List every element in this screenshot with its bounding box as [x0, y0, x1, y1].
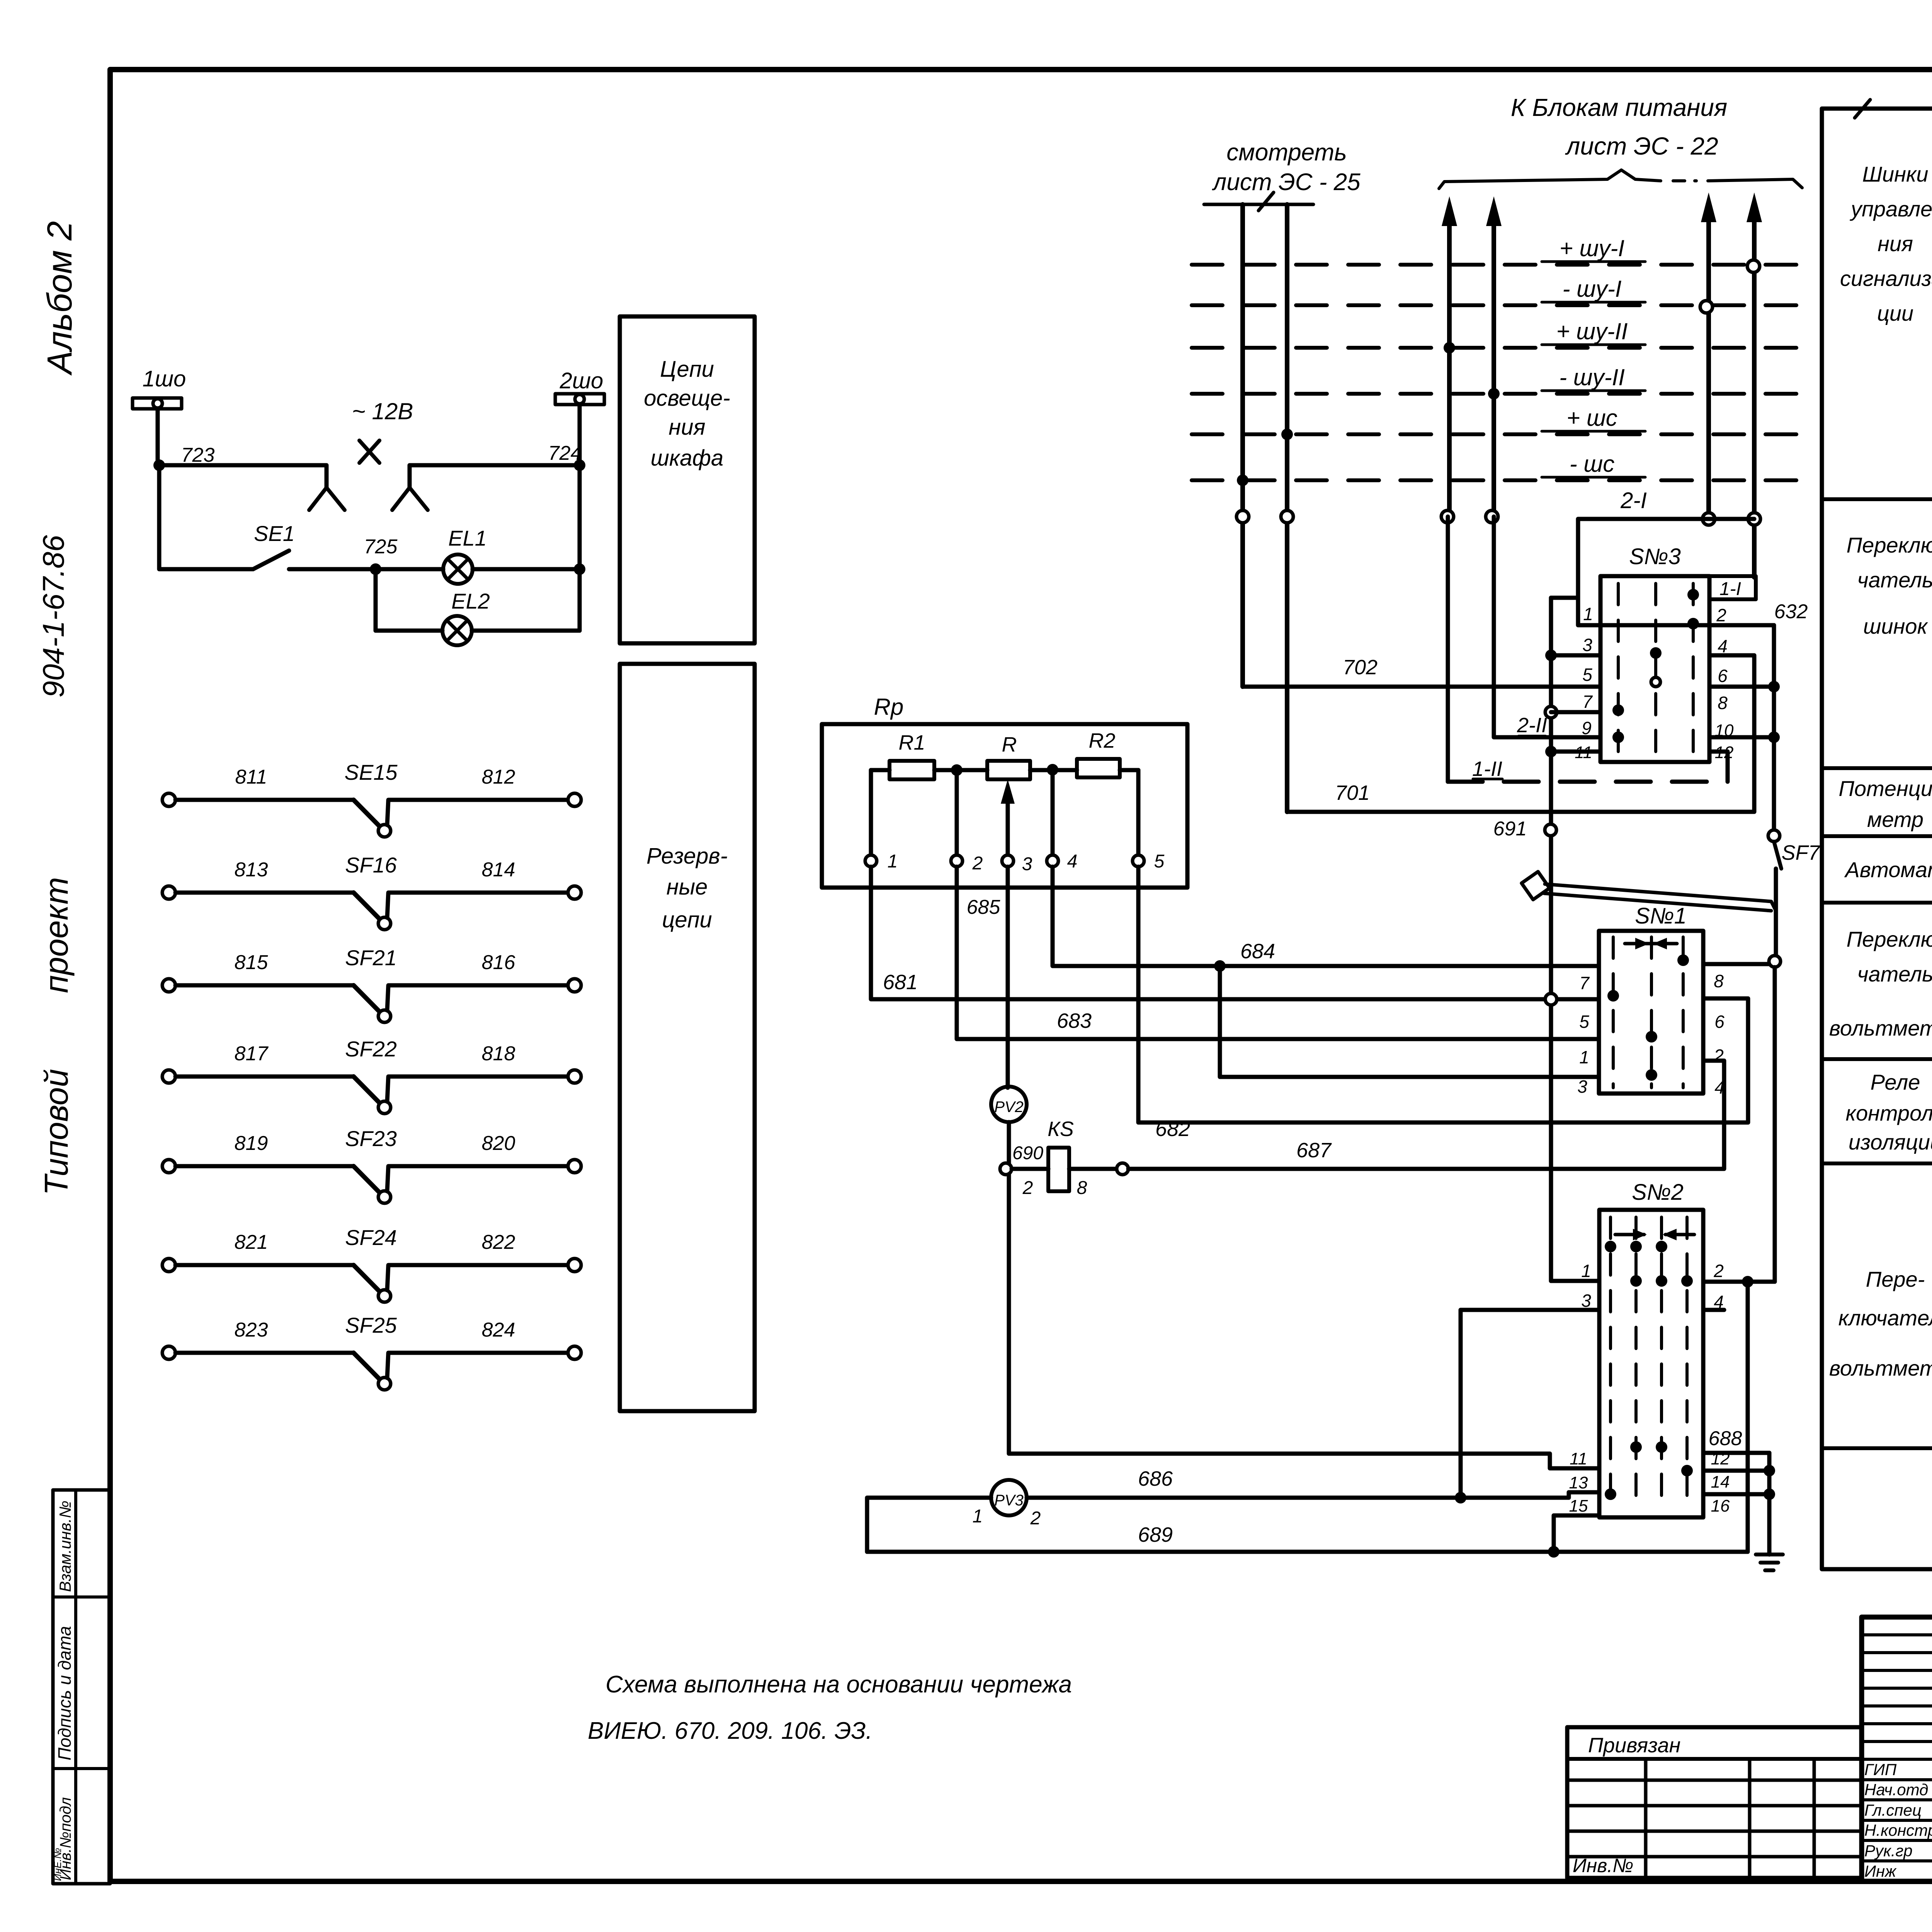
svg-text:13: 13 — [1569, 1473, 1588, 1492]
svg-text:725: 725 — [364, 536, 398, 558]
wire EL2 branch — [376, 629, 442, 633]
svg-text:SF25: SF25 — [345, 1313, 397, 1337]
stamp column outer box — [53, 1490, 110, 1884]
svg-text:управле-: управле- — [1849, 197, 1932, 221]
svg-text:Пере-: Пере- — [1866, 1267, 1925, 1291]
contact circle riser2 — [1486, 510, 1498, 523]
svg-text:815: 815 — [235, 951, 269, 974]
svg-text:Потенцио-: Потенцио- — [1838, 776, 1932, 801]
wire jog to pin3 riser — [1551, 596, 1578, 600]
title row ГИП — [1862, 1778, 1932, 1781]
junction 689 riser to SN2 pin15 — [1548, 1546, 1560, 1558]
svg-text:812: 812 — [482, 766, 515, 788]
wire PV2 node down to SN2 pin11 — [1009, 1175, 1599, 1468]
svg-text:632: 632 — [1774, 600, 1808, 623]
bus - шс — [1192, 478, 1803, 482]
wire SF7 riser 632 down — [1772, 625, 1776, 830]
svg-text:16: 16 — [1711, 1497, 1730, 1515]
brace under note — [1439, 170, 1661, 189]
SN1 drive hood — [1522, 872, 1549, 900]
svg-text:15: 15 — [1569, 1497, 1588, 1515]
Rp pin 1 — [869, 770, 873, 855]
junction on -ShS bus — [1237, 474, 1248, 486]
svg-text:Реле: Реле — [1871, 1070, 1920, 1094]
switch SF24 row wire 821-822 — [162, 1259, 175, 1272]
switch block SN3 — [1600, 576, 1709, 762]
svg-text:4: 4 — [1714, 1077, 1725, 1097]
switch SE1 — [253, 551, 289, 569]
svg-text:823: 823 — [235, 1319, 268, 1341]
SN2 pin3 wire from 686 riser — [1461, 1310, 1599, 1498]
wire 686 from PV3 — [1027, 1496, 1461, 1500]
contact circle pin7 — [1545, 706, 1557, 718]
wire SN2 pin12 right — [1703, 1469, 1769, 1473]
svg-text:3: 3 — [1022, 854, 1032, 874]
svg-text:Rр: Rр — [874, 694, 904, 720]
switch SF21 row wire 815-816 — [162, 979, 175, 992]
Rp pin 4 — [1051, 770, 1055, 855]
title row Рук.гр — [1862, 1859, 1932, 1862]
switch SF22 row wire 817-818 — [162, 1070, 175, 1083]
svg-text:EL1: EL1 — [448, 526, 487, 550]
arrow riser 1 to power units — [1447, 209, 1452, 517]
contact circle 690 — [1000, 1163, 1012, 1175]
svg-text:1-I: 1-I — [1719, 579, 1741, 599]
Rp pin 5 — [1136, 770, 1141, 855]
svg-text:чатель: чатель — [1857, 962, 1932, 986]
contact circle riser1 — [1441, 510, 1454, 523]
wire down to lamp EL2 — [374, 569, 378, 631]
svg-text:смотреть: смотреть — [1226, 139, 1347, 166]
switch block SN2 — [1599, 1210, 1703, 1517]
svg-text:11: 11 — [1570, 1449, 1587, 1468]
contact circle 681/691 at SN1 pin7 — [1545, 993, 1557, 1005]
svg-text:1: 1 — [1581, 1261, 1591, 1281]
svg-text:метр: метр — [1867, 807, 1923, 832]
svg-text:5: 5 — [1154, 851, 1165, 872]
ground symbol — [1756, 1553, 1783, 1556]
svg-text:1: 1 — [1583, 604, 1593, 624]
wire EL1 to right node — [473, 567, 580, 571]
svg-text:3: 3 — [1577, 1077, 1587, 1097]
lamp EL2 — [442, 616, 472, 645]
svg-text:R: R — [1002, 733, 1017, 756]
resistor R1 — [889, 761, 934, 779]
svg-text:SF7: SF7 — [1781, 841, 1820, 864]
svg-text:14: 14 — [1711, 1473, 1730, 1492]
svg-text:Гл.спец: Гл.спец — [1864, 1801, 1922, 1819]
wire riser pins 3-7-691 — [1549, 598, 1553, 1281]
wire 2sho down — [578, 405, 582, 465]
svg-text:вольтметра: вольтметра — [1829, 1016, 1932, 1040]
SN2 handle arrows — [1615, 1233, 1644, 1236]
svg-text:7: 7 — [1579, 973, 1590, 993]
contact circle 691 — [1545, 746, 1557, 757]
svg-text:SF22: SF22 — [345, 1037, 397, 1061]
wire 681 from Rp pin1 to SN1 pin7 — [871, 867, 1545, 999]
svg-text:8: 8 — [1714, 971, 1724, 991]
wire riser to SN2 pin1 — [1551, 1279, 1599, 1283]
svg-text:813: 813 — [235, 859, 268, 881]
svg-text:Шинки: Шинки — [1862, 162, 1928, 186]
bus - шу-I — [1192, 303, 1803, 307]
title row Н.констр — [1862, 1839, 1932, 1842]
svg-text:освеще-: освеще- — [644, 386, 730, 411]
svg-text:ИнЕ.№: ИнЕ.№ — [52, 1848, 63, 1881]
svg-text:1шо: 1шо — [143, 366, 186, 391]
wire KS left pin — [1012, 1167, 1048, 1171]
svg-text:Типовой: Типовой — [38, 1069, 75, 1195]
svg-text:PV3: PV3 — [994, 1492, 1024, 1509]
svg-text:~ 12В: ~ 12В — [352, 398, 413, 424]
wire 683 from Rp pin2 to SN1 pin5 — [957, 867, 1599, 1039]
contact circle on 701 riser — [1281, 510, 1293, 523]
wire SN2 pin14 right — [1703, 1492, 1769, 1497]
svg-text:681: 681 — [883, 971, 918, 994]
wire riser SN1 top to SN2 pin2 — [1773, 967, 1777, 1282]
wire 2-I from riser to SN3 pin1 — [1709, 517, 1754, 521]
svg-text:817: 817 — [235, 1043, 269, 1065]
wire 1-II dashed to SN3 pin12 — [1446, 517, 1450, 782]
svg-text:SE15: SE15 — [345, 760, 398, 784]
svg-text:чатель: чатель — [1857, 568, 1932, 592]
wire 2-II to SN3 pin9 — [1494, 517, 1600, 737]
svg-text:818: 818 — [482, 1043, 515, 1065]
svg-text:685: 685 — [967, 896, 1001, 918]
svg-text:КS: КS — [1048, 1117, 1074, 1141]
svg-text:+ шу-II: + шу-II — [1556, 318, 1628, 344]
svg-text:7: 7 — [1582, 692, 1593, 712]
svg-text:9: 9 — [1582, 718, 1592, 738]
resistor assembly Rp box — [822, 724, 1187, 888]
svg-text:- шу-II: - шу-II — [1559, 364, 1625, 390]
wire 686 to SN2 pin13 — [1461, 1492, 1599, 1498]
svg-text:К Блокам питания: К Блокам питания — [1511, 94, 1727, 121]
contact circle riser3 on -ShU-I bus — [1700, 301, 1713, 313]
svg-text:Цепи: Цепи — [660, 357, 714, 382]
svg-text:1: 1 — [1579, 1047, 1589, 1067]
svg-text:ния: ния — [1878, 231, 1913, 256]
title row Нач.отд — [1862, 1798, 1932, 1801]
wire PV3 left loop to 689 — [867, 1498, 991, 1552]
svg-text:5: 5 — [1579, 1012, 1589, 1032]
svg-text:Схема выполнена на ос: Схема выполнена на основании чертежа — [605, 1671, 1072, 1698]
svg-text:шинок: шинок — [1863, 614, 1929, 638]
wire 723 to left plug fork — [159, 465, 327, 488]
svg-text:819: 819 — [235, 1132, 268, 1155]
svg-text:Подпись и дата: Подпись и дата — [54, 1626, 75, 1760]
svg-text:1: 1 — [888, 851, 898, 872]
wire 689 — [867, 1550, 1748, 1554]
contact circle riser4 at 2-I — [1748, 513, 1760, 525]
svg-text:691: 691 — [1493, 818, 1527, 840]
svg-text:SF23: SF23 — [345, 1126, 397, 1151]
svg-text:821: 821 — [235, 1231, 268, 1253]
wire 702 bus to SN3 pin5 — [1243, 685, 1600, 689]
svg-text:+ шс: + шс — [1566, 405, 1617, 431]
svg-text:SE1: SE1 — [254, 521, 295, 546]
bus - шу-II — [1192, 392, 1803, 396]
svg-text:Рук.гр: Рук.гр — [1864, 1842, 1913, 1860]
svg-text:690: 690 — [1012, 1143, 1043, 1163]
title row Гл.спец — [1862, 1819, 1932, 1822]
wire PV2 down to KS node — [1007, 1122, 1011, 1169]
wire EL2 up to node — [578, 465, 582, 631]
wire KS right pin to 687 — [1069, 1167, 1117, 1171]
bus + шс — [1192, 432, 1803, 436]
switch block SN1 — [1599, 931, 1703, 1094]
svg-text:ные: ные — [667, 874, 708, 900]
svg-text:688: 688 — [1709, 1427, 1742, 1450]
svg-text:ключатель: ключатель — [1838, 1306, 1932, 1330]
svg-text:3: 3 — [1581, 1291, 1591, 1311]
wire node723 down to switch SE1 — [159, 465, 253, 569]
svg-text:R2: R2 — [1088, 729, 1115, 752]
svg-text:2: 2 — [972, 853, 983, 874]
svg-text:лист ЭС - 25: лист ЭС - 25 — [1212, 169, 1361, 196]
svg-text:SF16: SF16 — [345, 853, 397, 877]
junction 686 riser — [1455, 1492, 1466, 1503]
svg-text:4: 4 — [1718, 636, 1728, 656]
svg-text:ции: ции — [1877, 301, 1913, 325]
wire 688 from SN2 — [1703, 1451, 1769, 1455]
wire 701 to SN3 pin4 — [1287, 655, 1754, 812]
junction on +ShS bus — [1281, 429, 1293, 440]
svg-text:811: 811 — [235, 766, 267, 788]
svg-text:816: 816 — [482, 951, 515, 974]
svg-text:+ шу-I: + шу-I — [1560, 235, 1624, 261]
svg-text:2: 2 — [1713, 1261, 1724, 1281]
svg-text:682: 682 — [1155, 1117, 1190, 1141]
junction on -ShU-II bus — [1488, 388, 1500, 400]
svg-text:904-1-67.86: 904-1-67.86 — [36, 535, 70, 697]
plug fork left half — [309, 488, 327, 510]
switch SF16 row wire 813-814 — [162, 886, 175, 899]
svg-text:ГИП: ГИП — [1864, 1760, 1897, 1779]
svg-text:5: 5 — [1582, 665, 1592, 685]
svg-text:814: 814 — [482, 859, 515, 881]
svg-text:ВИЕЮ. 670. 209. 106. ЭЗ.: ВИЕЮ. 670. 209. 106. ЭЗ. — [588, 1718, 872, 1744]
svg-text:Н.констр: Н.констр — [1864, 1821, 1932, 1839]
wire from 1sho down to node 723 — [156, 409, 160, 465]
tick line above ES-25 verticals — [1204, 203, 1313, 206]
wire from Rp pin3 down to voltmeter PV2 — [1006, 867, 1010, 1088]
switch SF25 row wire 823-824 — [162, 1346, 175, 1359]
svg-text:2: 2 — [1716, 605, 1726, 625]
svg-text:SF21: SF21 — [345, 946, 397, 970]
contact circle at SN1 top right — [1769, 956, 1781, 967]
svg-text:686: 686 — [1138, 1467, 1173, 1490]
svg-text:ния: ния — [668, 415, 705, 440]
svg-text:2-II: 2-II — [1517, 714, 1547, 737]
svg-text:6: 6 — [1718, 666, 1728, 686]
junction 684 branch — [1214, 960, 1226, 972]
node 724 — [574, 459, 585, 471]
svg-text:Нач.отд: Нач.отд — [1864, 1781, 1928, 1799]
svg-text:SF24: SF24 — [345, 1225, 397, 1250]
contact circle riser4 on +ShU-I bus — [1747, 260, 1760, 272]
node right of EL1 — [574, 563, 585, 575]
svg-text:Резерв-: Резерв- — [646, 844, 728, 869]
svg-text:687: 687 — [1296, 1139, 1332, 1162]
svg-text:Взам.инв.№: Взам.инв.№ — [56, 1501, 74, 1592]
svg-text:изоляции: изоляции — [1849, 1130, 1932, 1154]
svg-text:цепи: цепи — [662, 907, 712, 932]
bus + шу-II — [1192, 346, 1803, 350]
wire 687 to SN1 pin2 — [1128, 1061, 1724, 1169]
svg-text:684: 684 — [1240, 940, 1275, 963]
svg-text:2: 2 — [1030, 1508, 1041, 1529]
svg-text:1-II: 1-II — [1472, 757, 1502, 781]
svg-text:11: 11 — [1575, 743, 1592, 762]
bus + шу-I — [1192, 263, 1803, 267]
node 723 — [153, 459, 165, 471]
resistor R2 — [1077, 759, 1120, 777]
svg-text:2: 2 — [1713, 1046, 1724, 1066]
wire 724 plug to node — [410, 465, 580, 488]
svg-text:701: 701 — [1335, 781, 1370, 804]
junction pin3 — [1545, 650, 1557, 661]
junction R-R2 — [1047, 764, 1058, 776]
voltmeter PV3 — [991, 1480, 1027, 1515]
svg-text:R1: R1 — [898, 731, 925, 754]
wire 632 from SN3 pin2 — [1600, 623, 1774, 628]
SN2 pin4 stub — [1703, 1308, 1724, 1312]
plug fork right half — [392, 488, 410, 510]
switch SE15 row wire 811-812 — [162, 793, 175, 806]
svg-text:Автомат: Автомат — [1844, 857, 1932, 882]
SN1 handle arrows — [1625, 942, 1677, 946]
svg-text:689: 689 — [1138, 1523, 1173, 1546]
Rp pin 3 wiper arrow — [1006, 788, 1010, 861]
svg-text:EL2: EL2 — [451, 589, 490, 613]
box Tsepi osveshcheniya shkafa — [620, 316, 755, 643]
svg-text:- шу-I: - шу-I — [1562, 276, 1621, 302]
svg-text:S№2: S№2 — [1632, 1180, 1684, 1205]
wire 688 riser down to ground — [1767, 1453, 1772, 1554]
resistor R potentiometer — [987, 761, 1030, 779]
switch SF23 row wire 819-820 — [162, 1160, 175, 1173]
svg-text:проект: проект — [38, 877, 75, 993]
wire SN3 pin6 to SF7 riser — [1709, 685, 1774, 689]
X mark between plug halves — [359, 440, 379, 463]
label column box — [1822, 109, 1932, 1569]
svg-text:822: 822 — [482, 1231, 515, 1253]
svg-text:Инв.№: Инв.№ — [1573, 1855, 1633, 1876]
contact circle 687 — [1117, 1163, 1128, 1175]
contact circle riser3 bottom — [1702, 513, 1715, 525]
svg-text:Инж: Инж — [1864, 1862, 1897, 1880]
arrow riser 3 to power units — [1706, 205, 1711, 519]
automat SF7 blade — [1774, 842, 1781, 869]
label column top slash — [1855, 100, 1870, 118]
contact circle on 702 riser — [1236, 510, 1249, 523]
arrow riser 2 to power units — [1492, 209, 1496, 517]
wire vertical 701 riser from ES-25 — [1285, 204, 1289, 812]
svg-text:6: 6 — [1714, 1012, 1725, 1032]
connector 2sho — [555, 394, 604, 405]
lamp EL1 — [443, 554, 473, 584]
svg-text:сигнализа-: сигнализа- — [1840, 266, 1932, 291]
wire vertical 723-702 from ES-25 — [1240, 204, 1245, 687]
arrow riser 4 to power units — [1752, 205, 1757, 577]
svg-text:702: 702 — [1343, 656, 1378, 679]
svg-text:2шо: 2шо — [560, 368, 604, 393]
wire 725 to lamp EL1 — [289, 567, 443, 571]
title block outer — [1862, 1617, 1932, 1881]
svg-text:вольтметра: вольтметра — [1829, 1356, 1932, 1380]
svg-text:S№1: S№1 — [1635, 903, 1687, 929]
svg-text:Переклю-: Переклю- — [1847, 927, 1932, 951]
svg-text:PV2: PV2 — [994, 1099, 1024, 1116]
junction R1-R — [951, 764, 963, 776]
wire SF7 down to SN1 top right — [1774, 869, 1778, 955]
wire 684 from Rp pin4 — [1053, 867, 1599, 966]
wire riser SN2 pin2 junction down to 689 — [1742, 1276, 1753, 1287]
connector 1sho — [133, 398, 182, 409]
SN3 pin labels right — [1709, 574, 1756, 578]
node 725 — [370, 563, 381, 575]
SN2 pin2 wire right to SF7 riser — [1703, 1280, 1775, 1284]
svg-text:шкафа: шкафа — [651, 446, 724, 471]
wire 682 from Rp pin5 to SN1 pin8 — [1138, 867, 1748, 1122]
svg-text:Привязан: Привязан — [1588, 1734, 1680, 1757]
svg-text:824: 824 — [482, 1319, 515, 1341]
svg-text:683: 683 — [1057, 1009, 1092, 1032]
svg-text:3: 3 — [1582, 635, 1592, 655]
wire SN3 pin10 to SF7 riser — [1709, 735, 1774, 740]
svg-text:2-I: 2-I — [1620, 488, 1647, 513]
automat SF7 contact circle — [1768, 830, 1780, 842]
svg-text:4: 4 — [1067, 851, 1078, 872]
SN1 top pin stub right — [1703, 962, 1769, 966]
svg-text:8: 8 — [1077, 1178, 1087, 1198]
voltmeter PV2 — [991, 1087, 1027, 1122]
junction on +ShU-II bus — [1444, 342, 1455, 354]
svg-text:820: 820 — [482, 1132, 515, 1155]
wire through resistors — [871, 768, 889, 772]
svg-text:контроля: контроля — [1846, 1101, 1932, 1125]
svg-text:8: 8 — [1718, 693, 1728, 713]
privyazan box — [1567, 1727, 1862, 1878]
svg-text:723: 723 — [181, 444, 215, 466]
svg-text:S№3: S№3 — [1629, 544, 1681, 569]
svg-text:1: 1 — [973, 1506, 983, 1527]
svg-text:лист ЭС - 22: лист ЭС - 22 — [1565, 132, 1718, 160]
svg-text:Альбом 2: Альбом 2 — [41, 221, 79, 376]
svg-text:Переклю-: Переклю- — [1847, 533, 1932, 557]
svg-text:2: 2 — [1022, 1178, 1033, 1198]
box Rezervnye tsepi — [620, 664, 755, 1411]
Rp pin 2 — [955, 770, 959, 855]
insulation relay KS — [1048, 1148, 1069, 1191]
svg-text:- шс: - шс — [1570, 451, 1614, 477]
wire 684 branch to SN1 pin1 — [1220, 966, 1599, 1077]
